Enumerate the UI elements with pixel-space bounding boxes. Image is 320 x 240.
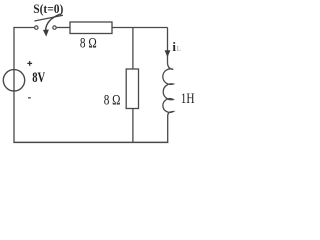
svg-text:8 Ω: 8 Ω (104, 91, 121, 108)
wire middle branch upper (132, 28, 134, 70)
inductor L1 coil (163, 63, 173, 116)
voltage source minus sign (28, 97, 31, 99)
resistor R1 8ohm (top, horizontal) (70, 22, 112, 34)
switch right terminal (53, 26, 56, 29)
switch closing arrow (43, 14, 61, 37)
svg-text:L: L (177, 45, 181, 53)
switch left terminal (35, 26, 38, 29)
svg-text:8 Ω: 8 Ω (80, 34, 97, 51)
inductor current arrow iL (165, 50, 171, 57)
resistor R2 8ohm (middle, vertical) (126, 69, 138, 109)
wire switch-to-R1 segment (57, 27, 70, 29)
voltage source plus sign (27, 61, 32, 66)
wire top-left segment (14, 28, 34, 143)
wire middle branch lower (132, 109, 134, 143)
wire right branch lower (167, 116, 169, 143)
switch blade (34, 15, 63, 21)
svg-text:1H: 1H (181, 90, 195, 107)
voltage source V1 circle (3, 70, 24, 91)
wire right branch upper (167, 28, 169, 63)
wire R1-to-right-corner segment (112, 27, 168, 29)
svg-text:8V: 8V (32, 69, 46, 85)
wire bottom rail (13, 141, 168, 143)
